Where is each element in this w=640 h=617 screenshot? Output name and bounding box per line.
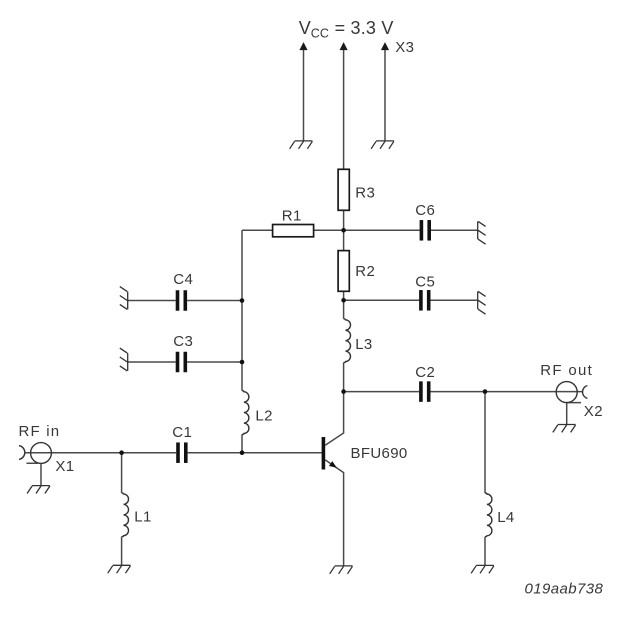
svg-text:C2: C2	[415, 364, 435, 381]
svg-text:C1: C1	[172, 424, 192, 441]
svg-text:C3: C3	[173, 333, 193, 350]
svg-text:R2: R2	[355, 263, 375, 280]
svg-text:CC: CC	[311, 27, 329, 41]
svg-text:L4: L4	[497, 509, 515, 526]
svg-text:RF out: RF out	[540, 362, 593, 379]
svg-text:R3: R3	[355, 184, 375, 201]
svg-text:C6: C6	[415, 202, 435, 219]
svg-text:019aab738: 019aab738	[525, 580, 604, 597]
svg-text:BFU690: BFU690	[351, 445, 408, 462]
svg-text:C5: C5	[415, 273, 435, 290]
svg-text:RF in: RF in	[19, 423, 61, 440]
svg-text:L2: L2	[255, 408, 273, 425]
svg-text:C4: C4	[173, 271, 193, 288]
svg-text:R1: R1	[282, 207, 302, 224]
svg-text:X3: X3	[395, 39, 414, 56]
svg-text:V: V	[299, 18, 311, 38]
svg-text:= 3.3 V: = 3.3 V	[335, 18, 394, 38]
svg-text:X2: X2	[584, 403, 603, 420]
svg-text:L3: L3	[355, 336, 373, 353]
svg-text:L1: L1	[134, 508, 152, 525]
svg-text:X1: X1	[55, 458, 74, 475]
